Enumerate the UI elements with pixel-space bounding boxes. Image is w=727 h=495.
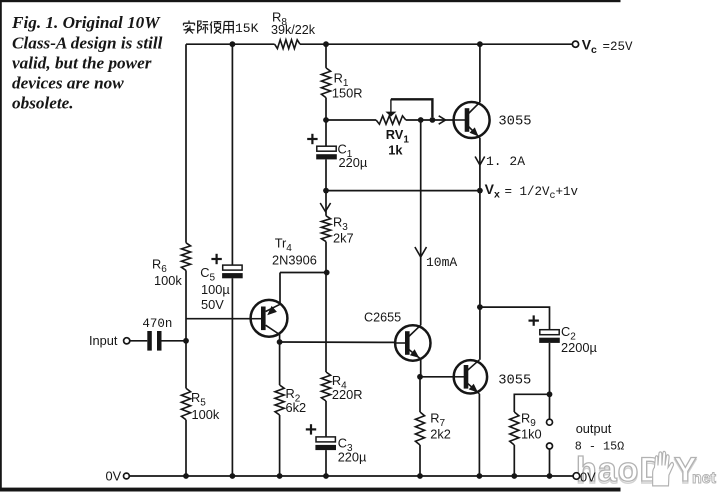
svg-text:1k0: 1k0: [521, 427, 542, 442]
border frame top: [0, 0, 621, 2]
wire Tr4 emitter up to R3 node: [279, 273, 281, 305]
wire top rail Vc: [186, 43, 275, 45]
wire 0V rail: [129, 475, 573, 477]
svg-text:2N3906: 2N3906: [272, 252, 317, 267]
node RV1 wire: [323, 117, 329, 123]
resistor R2: [275, 385, 284, 415]
node input junction: [183, 338, 189, 344]
wire rail through to R4: [325, 273, 327, 373]
svg-text:=25V: =25V: [603, 40, 634, 54]
svg-text:net: net: [692, 470, 717, 487]
svg-text:0V: 0V: [580, 470, 596, 485]
svg-text:1k: 1k: [388, 143, 403, 158]
wire R7 top lead: [419, 377, 421, 412]
node Q2 emitter bottom: [477, 473, 483, 479]
wire R8 to Vc terminal: [300, 43, 572, 45]
node C2 tap: [477, 304, 483, 310]
wire R1 top lead: [325, 44, 327, 68]
capacitor C1: [317, 146, 336, 151]
svg-text:C2655: C2655: [364, 311, 401, 325]
capacitor C5: [223, 265, 242, 270]
svg-text:0V: 0V: [106, 469, 122, 484]
capacitor C3: [316, 437, 335, 442]
svg-text:3055: 3055: [498, 374, 531, 389]
wire Q3 base from Tr4 collector: [280, 341, 396, 343]
wire Q1 emitter down with 1.2A arrow: [479, 138, 481, 191]
wire C5 rail top: [231, 44, 233, 265]
wire cap to junction: [162, 340, 187, 342]
wire 10mA rail with arrow: [420, 120, 422, 325]
wire output terminal to 0V: [549, 449, 551, 476]
wire left rail bottom: [185, 420, 187, 476]
wire C1 top lead: [325, 120, 327, 146]
transistor Q1 3055 (top): [454, 102, 490, 138]
wire R7 bottom lead: [419, 445, 421, 476]
svg-text:output: output: [576, 421, 612, 436]
wire Vx node: [326, 190, 480, 192]
svg-text:6k2: 6k2: [286, 400, 307, 415]
terminal 0V right: [573, 473, 580, 480]
node Tr4 emitter junction: [324, 270, 330, 276]
wire Q1 collector from top rail: [479, 44, 481, 102]
svg-text:220µ: 220µ: [339, 155, 368, 170]
svg-text:100µ: 100µ: [201, 282, 230, 297]
wire Q2 base: [421, 376, 454, 378]
wire power rail Vx to C2 tap: [479, 191, 481, 308]
wire to output terminal: [549, 394, 551, 419]
node wiper loop join: [430, 117, 436, 123]
svg-text:Fig. 1. Original 10W: Fig. 1. Original 10W: [11, 13, 161, 32]
svg-text:3055: 3055: [498, 114, 531, 129]
resistor R6: [181, 243, 190, 271]
terminal Vc: [572, 41, 578, 47]
wire R4 to C3: [325, 401, 327, 437]
svg-text:Input: Input: [89, 333, 118, 348]
wire R2 bottom lead: [279, 415, 281, 476]
wire Tr4 base from left rail: [186, 318, 251, 320]
node: R1 tap: [323, 41, 329, 47]
svg-text:8 - 15Ω: 8 - 15Ω: [575, 439, 625, 453]
potentiometer RV1 body: [376, 116, 406, 124]
svg-text:valid, but the power: valid, but the power: [12, 53, 152, 72]
resistor R5: [181, 388, 190, 420]
wire left rail top: [185, 44, 187, 243]
svg-text:150R: 150R: [332, 86, 363, 101]
wire C3 bottom lead: [325, 450, 327, 476]
svg-text:obsolete.: obsolete.: [12, 94, 74, 113]
transistor Tr4 2N3906: [251, 300, 288, 337]
node R2 bottom: [277, 473, 283, 479]
resistor R7: [415, 412, 424, 445]
capacitor 470n: [147, 331, 152, 351]
wire C5 rail bottom: [231, 278, 233, 476]
transistor Q3 C2655: [395, 325, 430, 360]
border frame bottom: [0, 488, 621, 492]
wire R3 bottom lead: [325, 242, 327, 273]
wire C2 bottom lead: [549, 343, 551, 394]
Tr4 emitter diagonal w/ arrow toward bar (PNP): [266, 304, 280, 311]
svg-text:2k7: 2k7: [333, 231, 354, 246]
node R5 bottom: [183, 473, 189, 479]
node C5 bottom: [230, 473, 236, 479]
svg-text:39k/22k: 39k/22k: [271, 23, 316, 37]
wire to Q2 collector: [479, 307, 481, 360]
wire R9 top lead: [514, 394, 549, 412]
RV1 wiper loop: [391, 99, 433, 117]
terminal 0V left: [124, 473, 130, 479]
svg-text:1. 2A: 1. 2A: [486, 154, 525, 169]
wire R1 node to RV1: [326, 119, 376, 121]
svg-text:10mA: 10mA: [426, 255, 457, 270]
border frame left: [0, 0, 2, 492]
svg-text:2200µ: 2200µ: [561, 340, 597, 355]
svg-text:220R: 220R: [332, 387, 363, 402]
wire input to cap: [130, 340, 147, 342]
watermark hand icon: [653, 451, 674, 486]
svg-text:devices are now: devices are now: [12, 74, 124, 93]
svg-text:470n: 470n: [142, 317, 172, 331]
terminal Input: [124, 338, 130, 344]
base arrow into Q1: [439, 116, 446, 124]
resistor R4: [321, 372, 330, 401]
svg-text:100k: 100k: [192, 407, 220, 422]
capacitor C2: [540, 330, 559, 335]
wire RV1 to base: [406, 119, 454, 121]
node Vx wire left: [323, 188, 329, 194]
wire left rail middle: [185, 270, 187, 388]
node: power rail tap: [477, 41, 483, 47]
wire R1 bottom lead: [325, 98, 327, 120]
node: C5 rail tap: [230, 41, 236, 47]
wire Q2 emitter to 0V: [478, 394, 480, 476]
node Tr4 collector / R2: [277, 339, 283, 345]
node R7 bottom: [417, 473, 423, 479]
svg-text:2k2: 2k2: [430, 427, 451, 442]
svg-text:220µ: 220µ: [338, 450, 367, 465]
node output bottom: [547, 473, 553, 479]
wire R3 top lead with current arrow: [325, 191, 327, 216]
wire C2 top: [480, 307, 550, 330]
node Vx junction: [477, 188, 483, 194]
resistor R1: [321, 68, 330, 98]
svg-text:100k: 100k: [154, 273, 182, 288]
node output junction: [547, 391, 553, 397]
node C3 bottom: [323, 473, 329, 479]
terminal output +: [547, 419, 553, 425]
wire Tr4 emitter node wire: [280, 272, 327, 274]
transistor Q2 3055 (bottom): [454, 360, 487, 393]
node Q3 emitter / R7 / Q2 base: [417, 374, 423, 380]
svg-text:15K: 15K: [235, 21, 259, 36]
svg-text:50V: 50V: [201, 297, 224, 312]
node R9 bottom: [511, 473, 517, 479]
resistor R9: [510, 412, 519, 445]
wire R2 top lead: [279, 342, 281, 385]
resistor R3: [321, 216, 330, 242]
resistor R8: [275, 40, 300, 49]
wire Q3 emitter to junction: [420, 359, 422, 377]
Tr4 collector diagonal: [266, 325, 280, 342]
terminal output -: [547, 443, 553, 449]
RV1 wiper arrow: [390, 99, 392, 112]
wire R9 bottom lead: [513, 445, 515, 476]
label 实际使用15K: [188, 21, 190, 23]
node 10mA rail tap: [418, 117, 424, 123]
wire C1 bottom lead: [325, 159, 327, 190]
svg-text:Class-A design is still: Class-A design is still: [12, 33, 163, 52]
